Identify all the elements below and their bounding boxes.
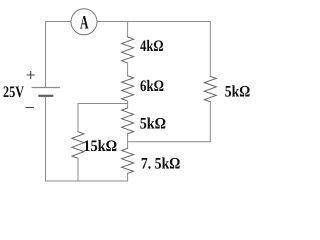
- svg-text:6kΩ: 6kΩ: [140, 78, 164, 95]
- wire 7.5k to bottom: [127, 173, 129, 181]
- svg-text:A: A: [80, 13, 89, 34]
- wire 15k to bottom: [77, 158, 79, 181]
- svg-text:5kΩ: 5kΩ: [140, 116, 166, 133]
- svg-text:25V: 25V: [3, 84, 24, 101]
- wire right branch upper: [209, 22, 211, 77]
- wire top-right horizontal: [97, 21, 210, 23]
- svg-text:4kΩ: 4kΩ: [140, 38, 164, 55]
- svg-text:5kΩ: 5kΩ: [225, 84, 251, 101]
- resistor R2 6kΩ: [122, 76, 134, 101]
- svg-text:7. 5kΩ: 7. 5kΩ: [141, 156, 181, 173]
- wire left branch upper: [45, 22, 47, 88]
- battery minus sign: [26, 107, 34, 109]
- node B wire to 15k branch: [78, 103, 128, 105]
- wire left branch lower: [45, 96, 47, 181]
- resistor R1 4kΩ: [122, 37, 134, 63]
- battery V1 long plate: [32, 87, 59, 89]
- wire middle branch top lead: [127, 22, 129, 38]
- wire top-left horizontal: [46, 21, 72, 23]
- wire bottom: [46, 180, 128, 182]
- ammeter A1 circle: [71, 9, 97, 35]
- wire right branch lower: [209, 102, 211, 142]
- wire 15k branch upper: [77, 104, 79, 132]
- wire 6k to node B: [127, 101, 129, 108]
- battery plus sign: [27, 72, 34, 79]
- resistor R4 7.5kΩ: [122, 148, 134, 173]
- resistor R6 15kΩ: [72, 132, 84, 159]
- node C wire to right branch: [128, 141, 211, 143]
- resistor R5 5kΩ right: [204, 76, 216, 102]
- svg-text:15kΩ: 15kΩ: [83, 138, 117, 155]
- resistor R3 5kΩ middle: [122, 108, 134, 134]
- wire between 4k and 6k: [127, 63, 129, 76]
- wire 5k to node C: [127, 134, 129, 149]
- battery V1 short plate: [39, 95, 52, 97]
